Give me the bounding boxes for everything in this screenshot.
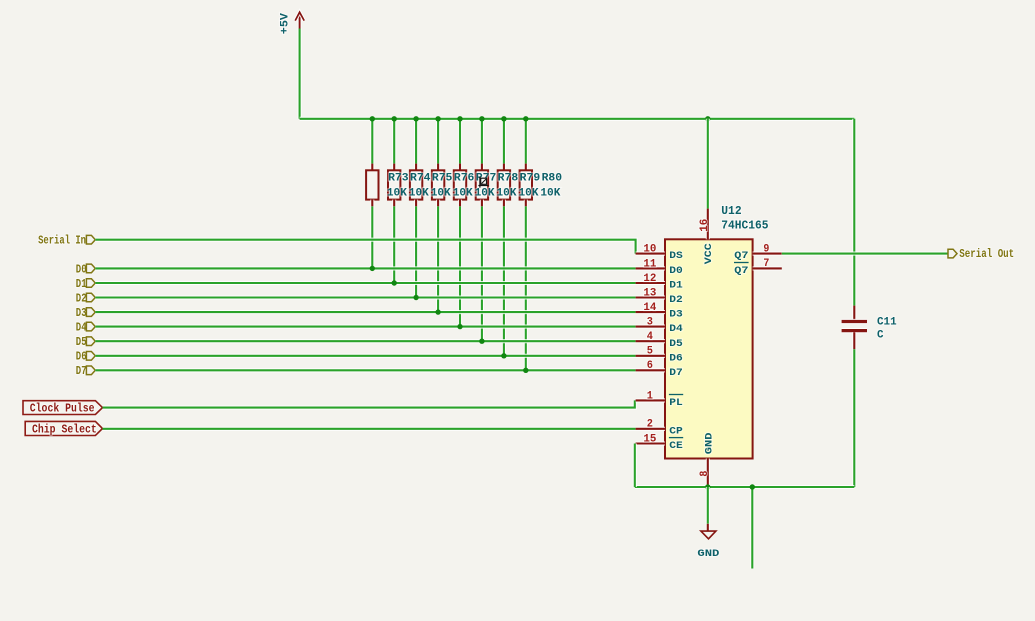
svg-text:D2: D2 (76, 291, 87, 305)
junction R80 top on +5V rail (523, 116, 528, 121)
svg-text:10: 10 (643, 244, 656, 256)
resistor R79 (498, 119, 510, 356)
value 10K of R74 (409, 188, 429, 200)
label R79 (520, 172, 541, 184)
junction R78 on D5 line (479, 339, 484, 344)
pin 6 D7 (636, 360, 683, 379)
svg-text:5: 5 (647, 346, 653, 358)
cursor (478, 177, 488, 188)
wire Q7 to Serial Out (782, 252, 948, 256)
svg-text:Q7: Q7 (734, 265, 748, 277)
wire CE to ground rail (633, 444, 637, 488)
resistor R77 (454, 119, 466, 327)
pin 3 D4 (636, 317, 683, 336)
svg-text:4: 4 (647, 331, 654, 343)
value 10K of R77 (475, 188, 495, 200)
wire D5 (95, 339, 635, 343)
wire D6 (95, 354, 635, 358)
value 10K of R75 (431, 188, 451, 200)
svg-text:U12: U12 (721, 204, 741, 218)
svg-text:10K: 10K (453, 188, 473, 200)
junction R74 top on +5V rail (392, 116, 397, 121)
pin 14 D3 (636, 302, 683, 321)
junction R73 top on +5V rail (370, 116, 375, 121)
svg-text:DS: DS (669, 250, 683, 262)
svg-text:D3: D3 (76, 306, 87, 320)
pin 15 CE (636, 433, 684, 452)
pin 5 D6 (636, 346, 683, 365)
pin 16 VCC (699, 119, 715, 264)
svg-text:GND: GND (704, 433, 716, 455)
label R74 (410, 172, 431, 184)
svg-text:D6: D6 (76, 350, 87, 364)
junction R79 on D6 line (501, 353, 506, 358)
net label Serial Out (948, 248, 1014, 261)
svg-text:R78: R78 (498, 172, 519, 184)
svg-text:16: 16 (699, 219, 711, 232)
junction R77 top on +5V rail (457, 116, 462, 121)
svg-text:11: 11 (643, 258, 657, 270)
label R80 (542, 172, 563, 184)
svg-text:C11: C11 (877, 317, 897, 329)
junction VCC on +5V rail (705, 116, 710, 121)
svg-text:10K: 10K (540, 188, 560, 200)
wire D7 (95, 368, 635, 372)
svg-text:D0: D0 (669, 265, 683, 277)
junction R75 top on +5V rail (413, 116, 418, 121)
value 10K of R76 (453, 188, 473, 200)
capacitor C11 (842, 306, 867, 350)
svg-text:R80: R80 (542, 172, 563, 184)
svg-text:+5V: +5V (280, 13, 292, 34)
svg-text:Clock Pulse: Clock Pulse (30, 402, 95, 416)
value 10K of R73 (387, 188, 407, 200)
net label D1 (76, 277, 96, 291)
sheet pin Clock Pulse (23, 401, 103, 416)
value 10K of R78 (497, 188, 517, 200)
junction R79 top on +5V rail (501, 116, 506, 121)
svg-text:1: 1 (647, 390, 654, 402)
svg-text:12: 12 (643, 273, 656, 285)
junction R74 on D1 line (392, 280, 397, 285)
svg-text:D4: D4 (76, 321, 87, 335)
svg-text:Chip Select: Chip Select (32, 422, 97, 436)
svg-text:13: 13 (643, 287, 656, 299)
svg-text:6: 6 (647, 360, 653, 372)
net label D4 (76, 321, 96, 335)
svg-text:CE: CE (669, 440, 683, 452)
pin 1 PL (636, 390, 684, 409)
wire Clock Pulse to PL (103, 400, 635, 407)
junction R76 top on +5V rail (435, 116, 440, 121)
svg-text:R75: R75 (432, 172, 453, 184)
wire stub down from ground rail (750, 487, 754, 569)
svg-text:10K: 10K (497, 188, 517, 200)
junction R73 on D0 line (370, 266, 375, 271)
wire C11 to ground rail (852, 349, 856, 487)
svg-text:15: 15 (643, 433, 656, 445)
label R77 (476, 172, 497, 184)
wire +5V rail (300, 117, 855, 121)
svg-text:74HC165: 74HC165 (721, 218, 768, 232)
junction R80 on D7 line (523, 368, 528, 373)
svg-text:VCC: VCC (703, 243, 715, 265)
svg-text:D3: D3 (669, 309, 683, 321)
wire D4 (95, 325, 635, 329)
svg-text:D2: D2 (669, 294, 683, 306)
resistor R75 (410, 119, 422, 298)
pin 9 Q7 (734, 243, 782, 262)
svg-text:8: 8 (699, 471, 711, 477)
pin 13 D2 (636, 287, 683, 306)
svg-text:14: 14 (643, 302, 657, 314)
net label D6 (76, 350, 96, 364)
svg-text:Q7: Q7 (734, 250, 748, 262)
svg-text:10K: 10K (431, 188, 451, 200)
label R73 (388, 172, 409, 184)
net label D3 (76, 306, 96, 320)
resistor R80 (520, 119, 532, 370)
svg-text:Serial In: Serial In (38, 234, 86, 248)
svg-text:D0: D0 (76, 262, 87, 276)
label R75 (432, 172, 453, 184)
svg-text:D6: D6 (669, 352, 683, 364)
label R78 (498, 172, 519, 184)
sheet pin Chip Select (25, 421, 102, 436)
svg-text:2: 2 (647, 419, 653, 431)
ground (697, 487, 719, 560)
net label D2 (76, 291, 96, 305)
junction R77 on D4 line (457, 324, 462, 329)
svg-text:10K: 10K (519, 188, 539, 200)
svg-text:D1: D1 (669, 280, 683, 292)
svg-text:R76: R76 (454, 172, 475, 184)
pin 7 Q7(inv) (734, 258, 782, 277)
resistor R76 (432, 119, 444, 312)
power +5V (280, 12, 305, 119)
wire ground rail (635, 485, 855, 489)
label R76 (454, 172, 475, 184)
label C11 (877, 317, 897, 329)
net label D5 (76, 335, 96, 349)
wire Serial In to DS (95, 240, 635, 254)
svg-text:R74: R74 (410, 172, 431, 184)
pin 2 CP (636, 419, 683, 438)
svg-text:9: 9 (763, 243, 769, 255)
svg-text:R73: R73 (388, 172, 409, 184)
wire D0 (95, 266, 635, 270)
net label Serial In (38, 234, 95, 248)
value 10K of R80 (540, 188, 560, 200)
svg-text:10K: 10K (387, 188, 407, 200)
pin 4 D5 (636, 331, 683, 350)
svg-text:D5: D5 (76, 335, 87, 349)
svg-text:PL: PL (669, 397, 683, 409)
svg-text:R79: R79 (520, 172, 541, 184)
svg-text:D5: D5 (669, 338, 683, 350)
junction GND pin on ground rail (705, 484, 710, 489)
net label D7 (76, 364, 96, 378)
value 74HC165 (721, 218, 768, 232)
junction R78 top on +5V rail (479, 116, 484, 121)
wire Chip Select to CP (103, 427, 636, 431)
pin 11 D0 (636, 258, 683, 277)
svg-text:7: 7 (763, 258, 769, 270)
svg-text:10K: 10K (475, 188, 495, 200)
label U12 (721, 204, 741, 218)
svg-text:CP: CP (669, 425, 683, 437)
svg-text:3: 3 (647, 317, 653, 329)
wire D3 (95, 310, 635, 314)
wire D2 (95, 295, 635, 299)
svg-text:C: C (877, 330, 884, 342)
wire rail to C11 (852, 119, 856, 306)
svg-text:D1: D1 (76, 277, 87, 291)
junction stub on ground rail (750, 484, 755, 489)
net label D0 (76, 262, 96, 276)
svg-text:Serial Out: Serial Out (959, 248, 1014, 261)
svg-text:GND: GND (697, 549, 719, 560)
svg-text:D4: D4 (669, 323, 683, 335)
junction R75 on D2 line (413, 295, 418, 300)
svg-text:10K: 10K (409, 188, 429, 200)
junction R76 on D3 line (435, 309, 440, 314)
resistor R78 (476, 119, 488, 341)
pin 12 D1 (636, 273, 683, 292)
resistor R74 (388, 119, 400, 283)
wire D1 (95, 281, 635, 285)
value 10K of R79 (519, 188, 539, 200)
resistor R73 (366, 119, 378, 269)
pin 8 GND (699, 433, 716, 488)
IC U12 74HC165 body (665, 239, 753, 458)
pin 10 DS (636, 244, 683, 263)
svg-text:D7: D7 (669, 367, 683, 379)
svg-text:D7: D7 (76, 364, 87, 378)
value C (877, 330, 884, 342)
